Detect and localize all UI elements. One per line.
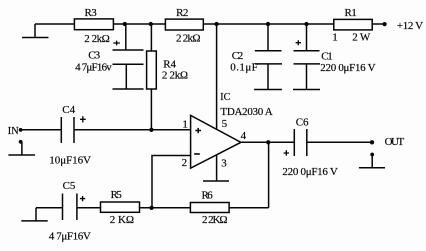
svg-text:2W: 2W bbox=[352, 31, 371, 43]
svg-text:4 7μF16V: 4 7μF16V bbox=[49, 231, 91, 243]
svg-text:2 2kΩ: 2 2kΩ bbox=[84, 33, 110, 45]
svg-text:R4: R4 bbox=[163, 58, 176, 70]
svg-text:1: 1 bbox=[332, 31, 338, 43]
svg-text:1: 1 bbox=[182, 118, 188, 130]
svg-text:2: 2 bbox=[182, 157, 188, 169]
svg-text:R5: R5 bbox=[111, 189, 123, 201]
svg-text:2 2kΩ: 2 2kΩ bbox=[176, 33, 201, 45]
svg-text:C3: C3 bbox=[88, 50, 100, 62]
svg-text:10μF16V: 10μF16V bbox=[49, 154, 91, 166]
svg-text:C5: C5 bbox=[63, 180, 76, 192]
svg-text:4 7μF16v: 4 7μF16v bbox=[75, 61, 112, 73]
svg-text:+12 V: +12 V bbox=[397, 20, 423, 32]
svg-text:2 2KΩ: 2 2KΩ bbox=[202, 214, 228, 226]
svg-text:2 2kΩ: 2 2kΩ bbox=[162, 70, 188, 82]
svg-text:220 0μF16 V: 220 0μF16 V bbox=[282, 166, 337, 178]
svg-text:0.1μF: 0.1μF bbox=[230, 62, 257, 74]
svg-text:5: 5 bbox=[222, 118, 228, 130]
svg-text:3: 3 bbox=[221, 158, 227, 170]
svg-text:220 0μF16 V: 220 0μF16 V bbox=[320, 62, 375, 74]
svg-text:IC: IC bbox=[220, 92, 230, 103]
svg-text:OUT: OUT bbox=[385, 136, 405, 148]
svg-text:TDA2030 A: TDA2030 A bbox=[220, 106, 272, 118]
svg-text:C4: C4 bbox=[62, 104, 75, 116]
svg-text:2 KΩ: 2 KΩ bbox=[110, 214, 134, 226]
svg-text:R1: R1 bbox=[345, 7, 357, 19]
svg-text:IN: IN bbox=[8, 126, 19, 137]
svg-text:4: 4 bbox=[241, 130, 247, 142]
svg-text:C6: C6 bbox=[296, 116, 309, 128]
svg-text:C1: C1 bbox=[321, 50, 333, 62]
svg-text:C2: C2 bbox=[232, 50, 244, 62]
svg-text:R2: R2 bbox=[176, 7, 188, 19]
svg-text:R3: R3 bbox=[85, 7, 98, 19]
svg-text:R6: R6 bbox=[202, 190, 214, 202]
